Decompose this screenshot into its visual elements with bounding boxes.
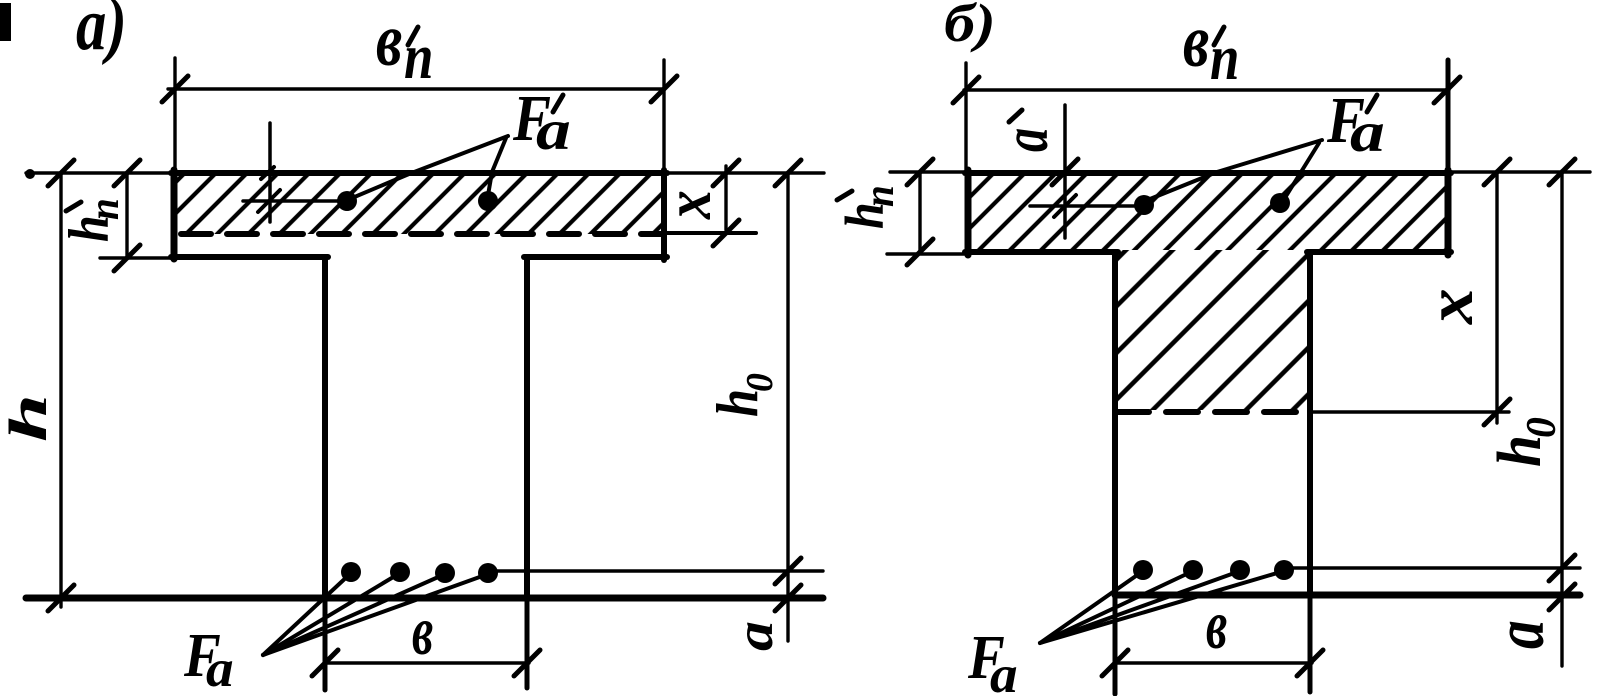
- svg-text:а: а: [726, 621, 784, 651]
- svg-text:а: а: [990, 645, 1018, 696]
- svg-text:а): а): [76, 0, 127, 66]
- svg-text:а: а: [990, 128, 1061, 152]
- svg-text:в: в: [412, 592, 433, 669]
- svg-text:x: x: [1412, 288, 1486, 325]
- svg-text:п: п: [81, 198, 128, 220]
- svg-text:б): б): [944, 0, 996, 53]
- svg-text:h: h: [0, 394, 58, 442]
- svg-text:0: 0: [739, 373, 781, 392]
- svg-text:а: а: [206, 639, 234, 696]
- svg-text:п: п: [1210, 21, 1239, 93]
- svg-text:x: x: [652, 190, 725, 220]
- svg-text:п: п: [856, 185, 903, 207]
- svg-text:в: в: [1183, 0, 1209, 83]
- svg-text:h: h: [704, 389, 770, 417]
- svg-text:а: а: [1480, 620, 1559, 649]
- svg-text:в: в: [1206, 586, 1227, 663]
- svg-text:в: в: [376, 0, 402, 82]
- svg-text:0: 0: [1519, 417, 1565, 438]
- svg-text:h: h: [1484, 435, 1554, 467]
